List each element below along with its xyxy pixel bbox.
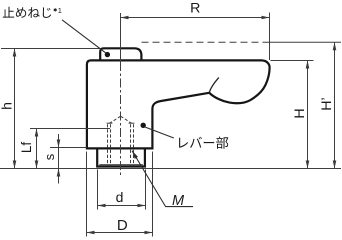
svg-text:Lf: Lf [19, 142, 34, 154]
svg-text:d: d [116, 189, 124, 205]
R right extension line [269, 13, 271, 61]
dimension H-prime line [334, 42, 336, 168]
dimension D extension line left [86, 152, 88, 237]
dimension Lf line [36, 129, 38, 169]
svg-text:s: s [42, 153, 57, 160]
dimension h extension line top [1, 48, 100, 50]
body and lever outline [87, 60, 270, 148]
svg-text:H’: H’ [319, 97, 335, 110]
svg-text:h: h [0, 102, 15, 110]
drill point base tick right [129, 122, 135, 124]
svg-text:1: 1 [58, 6, 62, 15]
dimension h line [14, 49, 16, 169]
note *1 [54, 8, 57, 11]
label lever-bu [179, 137, 228, 149]
drill point left [108, 116, 121, 124]
drill point base tick left [107, 122, 113, 124]
threaded boss (nut) [97, 148, 145, 166]
set screw dot [105, 52, 110, 57]
M leader line [132, 151, 193, 207]
dimension s extension line [50, 147, 87, 149]
dimension d extension line left [97, 170, 99, 210]
dimension D line [87, 232, 153, 234]
lever part leader dot [141, 123, 146, 128]
baseline datum [0, 168, 341, 170]
dimension d line [98, 205, 146, 207]
dimension R line [121, 17, 270, 19]
svg-text:R: R [190, 0, 200, 16]
set screw boss cap [100, 48, 141, 61]
thread hidden line left outer [107, 124, 109, 166]
lever part leader line [145, 127, 174, 138]
thread hidden line right outer [133, 124, 135, 166]
label tomeneji (set screw) [3, 7, 51, 18]
drill point right [121, 116, 134, 124]
dimension H extension line top [271, 60, 314, 62]
dimension D extension line right [152, 152, 154, 237]
lever max height dashed line [142, 41, 268, 43]
svg-text:D: D [117, 217, 128, 234]
svg-text:M: M [172, 193, 185, 209]
thread hidden line left inner [110, 124, 112, 166]
dimension H line [307, 61, 309, 169]
H-prime top extension line [268, 41, 342, 43]
thread hidden line right inner [130, 124, 132, 166]
boss chamfer line [99, 164, 143, 166]
lever grip contour line [209, 78, 219, 93]
dimension Lf extension line [30, 128, 110, 130]
svg-text:H: H [292, 108, 308, 118]
dimension s line [58, 134, 60, 184]
set screw leader line [62, 20, 106, 53]
dimension d extension line right [145, 170, 147, 210]
M leader arrowhead [132, 151, 138, 159]
center line [120, 13, 122, 62]
